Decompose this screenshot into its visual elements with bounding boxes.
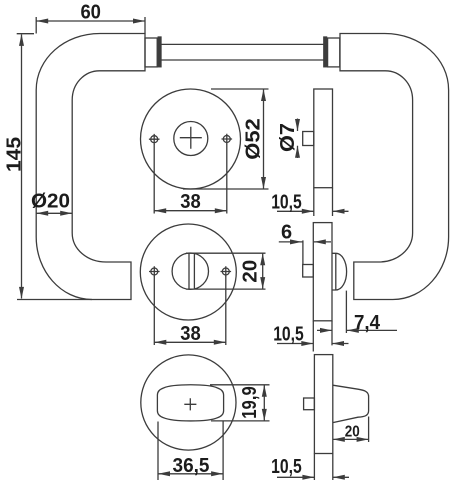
- arrows dim 145: [19, 34, 24, 46]
- svg-text:Ø20: Ø20: [31, 191, 70, 213]
- svg-text:10,5: 10,5: [271, 456, 302, 478]
- dim 10,5 (side3): arrow lines: [277, 476, 349, 478]
- rose 3: center cross: [184, 398, 196, 410]
- left collar: [145, 38, 157, 67]
- right handle outline: [340, 34, 449, 300]
- rose 2: knob slot: [189, 253, 194, 289]
- side view 1: rose plate: [314, 89, 333, 188]
- svg-text:20: 20: [345, 424, 360, 441]
- dim 38 (rose2): extension lines: [154, 276, 226, 345]
- svg-text:19,9: 19,9: [239, 386, 261, 419]
- dim 19,9: extension lines: [210, 385, 270, 421]
- arrows dim 36,5: [158, 471, 170, 476]
- rose 2: left screw: [151, 268, 158, 275]
- svg-text:36,5: 36,5: [173, 455, 210, 477]
- dim 6: lines: [279, 240, 331, 264]
- dim 60: extension lines: [36, 17, 145, 34]
- svg-text:38: 38: [180, 191, 201, 213]
- dim 10,5 (side1): extension lines: [314, 188, 333, 216]
- dim 19,9: line: [263, 385, 265, 421]
- dim Ø52: extension lines: [183, 89, 269, 189]
- dim 145: line: [21, 35, 23, 299]
- rose 3 (front view): outer circle: [141, 355, 236, 450]
- dim 7,4: extension line: [345, 291, 347, 333]
- svg-text:6: 6: [281, 222, 292, 244]
- arrows dim 38 rose2: [154, 340, 166, 345]
- side view 2: turn knob: [332, 253, 347, 290]
- dim 36,5: extension lines: [158, 422, 223, 480]
- arrows dim 20 rose2: [260, 253, 265, 265]
- dim 20 (rose2): line: [262, 253, 264, 289]
- svg-text:10,5: 10,5: [271, 192, 302, 214]
- rose 1 (front view): outer circle: [141, 89, 241, 189]
- rose 1: right screw: [223, 136, 230, 143]
- dim 38 (rose1): line: [154, 210, 227, 212]
- left collar ring band: [158, 37, 161, 67]
- side view 3: spindle pin: [304, 398, 315, 410]
- rose 3: thumbturn knob: [157, 385, 223, 421]
- arrows dim 19,9: [262, 385, 267, 397]
- right collar ring band: [324, 37, 327, 67]
- arrows dim 6: [290, 239, 302, 244]
- dim 20 (rose2): extension lines: [186, 253, 266, 289]
- arrows dim Ø7: [295, 119, 300, 131]
- dim 7,4: arrow lines: [317, 329, 397, 331]
- spindle: [161, 44, 324, 60]
- side view 2: rose plate: [313, 223, 332, 321]
- dim 10,5 (side2): extension lines: [313, 321, 332, 352]
- dim 38 (rose1): extension lines: [154, 144, 227, 214]
- rose 1: left screw: [151, 136, 158, 143]
- arrows dim 10,5 side3: [302, 475, 314, 480]
- rose 1: spindle hole: [174, 122, 208, 156]
- dim 10,5 (side3): extension lines: [314, 454, 332, 480]
- arrows dim 7,4: [320, 328, 332, 333]
- dim 20 (side3): line: [333, 438, 369, 440]
- arrows dim Ø20: [36, 211, 48, 216]
- svg-text:145: 145: [4, 137, 26, 172]
- left handle outline: [36, 34, 145, 300]
- dim 145: extension lines: [17, 34, 92, 300]
- right collar: [328, 38, 340, 67]
- svg-text:60: 60: [80, 1, 101, 23]
- dim Ø52: line: [263, 89, 265, 189]
- svg-text:10,5: 10,5: [273, 323, 304, 345]
- side view 3: rose plate: [314, 355, 332, 454]
- arrows dim Ø52: [261, 89, 266, 101]
- arrows dim 60: [36, 19, 48, 24]
- svg-text:20: 20: [240, 260, 262, 283]
- arrows dim 20 side3: [333, 437, 345, 442]
- dim Ø20: line: [36, 212, 72, 214]
- arrows dim 10,5 side1: [302, 209, 314, 214]
- dim 10,5 (side1): arrow lines: [277, 210, 349, 212]
- dim 10,5 (side2): arrow lines: [277, 343, 349, 345]
- side view 1: spindle pin: [303, 132, 314, 146]
- svg-text:Ø52: Ø52: [243, 118, 265, 160]
- dim 60: line: [36, 20, 145, 22]
- svg-text:7,4: 7,4: [354, 312, 381, 334]
- side view 2: spindle pin: [303, 265, 314, 278]
- svg-text:38: 38: [180, 323, 201, 345]
- dim 38 (rose2): line: [154, 341, 226, 343]
- svg-text:Ø7: Ø7: [277, 123, 299, 152]
- dim Ø7: arrow lines: [297, 119, 299, 159]
- dim 20 (side3): extension line: [368, 417, 370, 443]
- rose 2: turn knob: [172, 253, 208, 289]
- rose 2: right screw: [222, 268, 229, 275]
- dim 36,5: line: [158, 473, 223, 475]
- rose 2 (front view): outer circle: [140, 224, 236, 320]
- rose 1: center cross: [180, 127, 202, 149]
- side view 3: thumbturn knob: [333, 385, 369, 422]
- arrows dim 38 rose1: [154, 208, 166, 213]
- arrows dim 10,5 side2: [301, 341, 313, 346]
